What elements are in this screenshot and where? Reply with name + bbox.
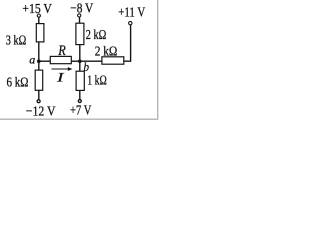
resistor 2 kOhm horizontal [102,57,124,64]
terminal +15 V [37,14,40,17]
svg-text:2 kΩ: 2 kΩ [86,28,107,43]
resistor 2 kOhm vertical [76,23,84,44]
wire node b to 1k resistor [79,61,81,71]
wire +15V terminal to R 3k [38,17,40,23]
svg-text:2 kΩ: 2 kΩ [95,45,118,60]
svg-text:I: I [56,69,65,84]
wire 2k horizontal resistor to +11V corner [124,25,131,62]
wire node a to 6k resistor [38,61,40,70]
resistor 1 kOhm [76,71,84,90]
current arrow I [52,67,73,71]
svg-text:3 kΩ: 3 kΩ [6,34,27,49]
terminal -8 V [78,14,81,17]
wire node b to 2k horizontal resistor [80,60,102,62]
terminal +11 V [129,21,132,24]
resistor 3 kOhm [36,24,44,42]
svg-text:a: a [29,52,35,66]
wire 3k resistor to node a [38,42,40,61]
wire 1k resistor to +7V terminal [79,90,81,99]
wire 2k resistor to node b [79,45,81,62]
wire -8V terminal to 2k resistor [79,17,81,23]
svg-text:+7 V: +7 V [70,104,91,119]
svg-text:−12 V: −12 V [26,105,56,120]
wire resistor R to node b [71,60,80,62]
node b junction dot [78,59,82,63]
resistor R [50,56,71,63]
svg-text:R: R [57,43,65,59]
wire node a to resistor R [39,60,51,62]
svg-text:1 kΩ: 1 kΩ [87,73,107,88]
resistor 6 kOhm [35,70,43,90]
node a junction dot [37,59,41,63]
terminal -12 V [37,100,40,103]
svg-text:+11 V: +11 V [118,5,145,20]
terminal +7 V [78,100,81,103]
svg-text:−8 V: −8 V [70,1,93,16]
svg-text:6 kΩ: 6 kΩ [7,76,29,91]
wire 6k resistor to -12V terminal [38,90,40,100]
